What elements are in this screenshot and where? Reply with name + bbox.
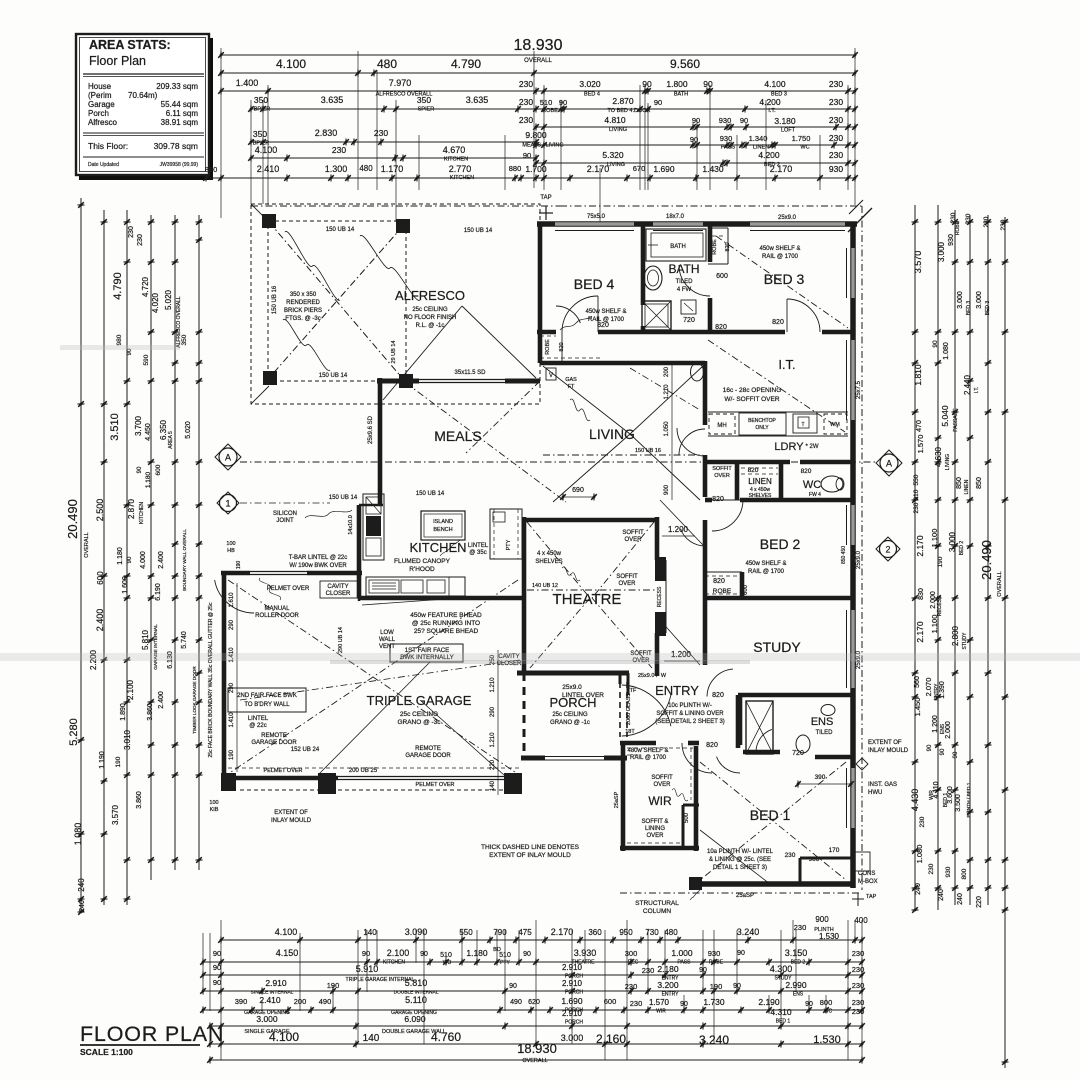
svg-text:OVERALL: OVERALL <box>524 58 552 64</box>
svg-text:GARAGE DOOR: GARAGE DOOR <box>251 740 297 746</box>
svg-text:INLAY MOULD: INLAY MOULD <box>271 818 312 824</box>
svg-text:LIVING: LIVING <box>609 127 627 133</box>
svg-text:600: 600 <box>155 464 162 475</box>
svg-text:25aSP: 25aSP <box>736 893 754 899</box>
svg-text:@ 22c: @ 22c <box>249 723 266 729</box>
svg-text:930: 930 <box>945 866 952 877</box>
svg-text:900: 900 <box>809 856 820 863</box>
svg-text:690: 690 <box>572 487 584 494</box>
island bench <box>421 511 465 540</box>
svg-text:4.670: 4.670 <box>443 145 466 155</box>
svg-text:190: 190 <box>236 561 242 570</box>
svg-text:150 UB 14: 150 UB 14 <box>326 227 355 233</box>
svg-text:290 UB 14: 290 UB 14 <box>338 627 344 653</box>
svg-text:STUDY: STUDY <box>753 639 801 655</box>
marker A left <box>215 444 241 470</box>
svg-text:240: 240 <box>915 883 922 895</box>
svg-text:600: 600 <box>716 273 728 280</box>
svg-text:190: 190 <box>937 556 944 567</box>
svg-text:PASSAGE: PASSAGE <box>953 408 959 432</box>
svg-text:9.800: 9.800 <box>525 130 547 140</box>
svg-text:R.L. @ -1c: R.L. @ -1c <box>416 323 445 329</box>
svg-text:800: 800 <box>820 998 833 1007</box>
svg-text:10c PLINTH W/-: 10c PLINTH W/- <box>668 703 712 709</box>
svg-text:Alfresco: Alfresco <box>88 118 117 127</box>
svg-text:WC: WC <box>803 479 821 491</box>
svg-text:600: 600 <box>604 997 617 1006</box>
svg-text:PLINTH / BED 1: PLINTH / BED 1 <box>966 782 972 817</box>
svg-text:90: 90 <box>932 340 939 348</box>
svg-text:1.180: 1.180 <box>145 471 152 488</box>
svg-text:2.100: 2.100 <box>387 948 410 958</box>
svg-text:3.860: 3.860 <box>136 791 143 809</box>
top dimension block <box>203 37 858 222</box>
svg-text:CLOSER: CLOSER <box>326 591 351 597</box>
svg-text:90: 90 <box>523 151 531 160</box>
svg-text:BED 2: BED 2 <box>791 960 806 966</box>
svg-text:230: 230 <box>137 234 144 246</box>
svg-text:230: 230 <box>965 213 972 224</box>
svg-text:EXTENT OF: EXTENT OF <box>868 740 902 746</box>
svg-text:LINING: LINING <box>645 826 665 832</box>
svg-text:150 UB 16: 150 UB 16 <box>635 448 661 454</box>
svg-text:BATH: BATH <box>670 244 686 250</box>
svg-text:3.240: 3.240 <box>699 1033 729 1047</box>
svg-text:GAS: GAS <box>565 377 577 383</box>
svg-text:SOFFIT: SOFFIT <box>616 574 638 580</box>
svg-text:800: 800 <box>961 868 968 879</box>
svg-text:3.150: 3.150 <box>785 948 808 958</box>
svg-text:BED 3: BED 3 <box>985 301 991 316</box>
svg-text:190: 190 <box>229 749 235 760</box>
svg-text:90: 90 <box>740 116 748 125</box>
svg-text:600: 600 <box>743 584 749 595</box>
svg-text:4.810: 4.810 <box>604 115 626 125</box>
svg-text:470: 470 <box>916 420 923 432</box>
svg-text:10a PLINTH W/- LINTEL: 10a PLINTH W/- LINTEL <box>707 849 774 855</box>
svg-text:TAP: TAP <box>540 195 551 201</box>
title <box>80 1022 224 1057</box>
svg-text:900: 900 <box>664 484 670 495</box>
svg-text:360: 360 <box>588 928 602 937</box>
ceiling diagonals <box>228 236 848 884</box>
svg-text:ROBE: ROBE <box>712 239 718 255</box>
svg-text:5.740: 5.740 <box>181 631 188 649</box>
svg-text:25x9.0: 25x9.0 <box>856 550 862 569</box>
svg-text:REMOTE: REMOTE <box>261 733 287 739</box>
svg-text:TO B'DRY WALL: TO B'DRY WALL <box>244 702 290 708</box>
svg-text:930: 930 <box>720 134 733 143</box>
svg-text:75x5.0: 75x5.0 <box>587 214 606 220</box>
marker 2 right <box>876 537 900 561</box>
svg-text:3.700: 3.700 <box>134 415 143 436</box>
svg-text:230: 230 <box>829 115 843 125</box>
svg-text:230: 230 <box>128 226 135 238</box>
svg-text:1.210: 1.210 <box>490 732 496 748</box>
svg-text:Porch: Porch <box>88 109 109 118</box>
svg-text:LINTEL: LINTEL <box>248 716 269 722</box>
svg-text:1.700: 1.700 <box>525 164 547 174</box>
svg-text:3.000: 3.000 <box>976 291 983 309</box>
svg-text:820: 820 <box>715 324 727 331</box>
svg-text:90: 90 <box>690 135 698 144</box>
svg-text:309.78 sqm: 309.78 sqm <box>154 141 198 151</box>
svg-text:3.090: 3.090 <box>405 927 428 937</box>
svg-text:850: 850 <box>976 477 983 489</box>
svg-text:90: 90 <box>420 951 428 958</box>
svg-text:850: 850 <box>956 477 963 489</box>
room labels <box>367 262 834 823</box>
wc toilet <box>821 476 844 492</box>
svg-text:House: House <box>88 82 112 91</box>
svg-text:BRICK PIERS: BRICK PIERS <box>284 308 322 314</box>
svg-text:2.170: 2.170 <box>551 927 574 937</box>
svg-text:COLUMN: COLUMN <box>643 908 671 915</box>
svg-text:BED 1: BED 1 <box>776 1019 791 1025</box>
svg-text:W/- SOFFIT OVER: W/- SOFFIT OVER <box>724 396 779 403</box>
svg-text:4.100: 4.100 <box>276 57 306 71</box>
svg-text:100: 100 <box>226 541 235 547</box>
svg-text:890: 890 <box>205 165 218 174</box>
svg-text:170: 170 <box>829 847 840 854</box>
svg-text:4.200: 4.200 <box>758 150 780 160</box>
svg-text:240: 240 <box>957 893 964 905</box>
scan smudge bands <box>0 653 1080 661</box>
svg-text:3.600: 3.600 <box>947 786 954 804</box>
svg-text:2.870: 2.870 <box>612 96 634 106</box>
svg-text:480w SHELF &: 480w SHELF & <box>627 748 668 754</box>
svg-text:LIVING: LIVING <box>607 162 625 168</box>
svg-text:2.770: 2.770 <box>449 164 472 174</box>
svg-text:SHELVES: SHELVES <box>535 559 562 565</box>
svg-text:730: 730 <box>645 928 659 937</box>
svg-text:LINEN: LINEN <box>964 479 970 494</box>
svg-text:450w SHELF &: 450w SHELF & <box>745 561 786 567</box>
svg-text:230: 230 <box>983 216 990 227</box>
svg-text:1.300: 1.300 <box>325 164 348 174</box>
svg-text:FT: FT <box>568 384 575 390</box>
svg-text:230: 230 <box>519 115 533 125</box>
svg-text:T: T <box>801 422 804 428</box>
svg-text:1.390: 1.390 <box>939 681 946 699</box>
svg-text:A: A <box>225 453 231 463</box>
svg-text:20.490: 20.490 <box>979 540 994 580</box>
svg-text:240: 240 <box>938 889 945 901</box>
svg-text:2.440: 2.440 <box>963 374 972 395</box>
svg-text:930: 930 <box>948 234 955 246</box>
svg-text:4 FW: 4 FW <box>677 287 692 293</box>
svg-text:Garage: Garage <box>88 100 115 109</box>
svg-text:230: 230 <box>852 949 865 958</box>
svg-text:ROBE: ROBE <box>713 588 732 595</box>
svg-text:2.400: 2.400 <box>158 691 165 709</box>
svg-text:2.170: 2.170 <box>915 621 925 643</box>
svg-text:1.100: 1.100 <box>930 615 939 634</box>
svg-text:INLAY MOULD: INLAY MOULD <box>868 748 909 754</box>
svg-text:100: 100 <box>209 800 218 806</box>
svg-text:BOUNDARY WALL OVERALL: BOUNDARY WALL OVERALL <box>182 529 187 591</box>
svg-text:25c FACE BRICK BOUNDARY WALL 3: 25c FACE BRICK BOUNDARY WALL 35c OVERALL… <box>208 602 214 757</box>
svg-text:LOW: LOW <box>380 630 394 636</box>
svg-text:3.000: 3.000 <box>937 241 946 262</box>
svg-text:TAP: TAP <box>866 894 877 900</box>
svg-text:4.110: 4.110 <box>933 781 940 798</box>
svg-text:KIB: KIB <box>210 807 219 813</box>
svg-text:25x9.0: 25x9.0 <box>562 684 582 691</box>
svg-text:THEATRE: THEATRE <box>553 591 622 608</box>
svg-text:4.720: 4.720 <box>141 276 150 297</box>
svg-text:230: 230 <box>625 982 638 991</box>
svg-text:4.100: 4.100 <box>275 927 298 937</box>
vanity basin nook <box>691 363 704 381</box>
svg-text:1.050: 1.050 <box>664 421 670 437</box>
svg-text:RENDERED: RENDERED <box>286 300 320 306</box>
svg-text:* 2W: * 2W <box>805 444 818 450</box>
svg-text:(Perim: (Perim <box>88 91 112 100</box>
svg-text:18x7.0: 18x7.0 <box>666 214 685 220</box>
svg-text:(SEE DETAIL 2 SHEET 3): (SEE DETAIL 2 SHEET 3) <box>655 719 725 725</box>
svg-text:1.530: 1.530 <box>819 932 840 941</box>
svg-text:820: 820 <box>712 496 724 503</box>
svg-text:820: 820 <box>597 322 609 329</box>
svg-text:TILED: TILED <box>675 279 693 285</box>
svg-text:4.000: 4.000 <box>140 551 147 569</box>
svg-text:5.280: 5.280 <box>68 718 80 746</box>
svg-text:1.340: 1.340 <box>749 134 768 143</box>
bath shower <box>642 300 696 330</box>
svg-text:5.110: 5.110 <box>405 995 427 1005</box>
svg-text:240: 240 <box>77 878 86 892</box>
svg-text:I.T.: I.T. <box>778 357 795 372</box>
svg-text:25c CEILING: 25c CEILING <box>412 307 448 313</box>
svg-text:4.300: 4.300 <box>770 964 793 974</box>
svg-text:2.910: 2.910 <box>562 979 583 988</box>
svg-text:BENCH: BENCH <box>433 527 452 533</box>
svg-text:290: 290 <box>229 619 235 630</box>
svg-text:TO BED 4.DOOR: TO BED 4.DOOR <box>608 108 651 114</box>
svg-text:& LINING @ 25c. (SEE: & LINING @ 25c. (SEE <box>709 857 771 863</box>
svg-text:350: 350 <box>253 129 267 139</box>
svg-text:3.000: 3.000 <box>561 1033 584 1043</box>
svg-text:230: 230 <box>829 97 843 107</box>
svg-text:CAVITY: CAVITY <box>327 584 348 590</box>
laundry bench row <box>709 413 847 435</box>
svg-text:3.635: 3.635 <box>466 95 489 105</box>
svg-text:6.350: 6.350 <box>159 419 168 440</box>
svg-text:SDR: SDR <box>737 720 743 732</box>
svg-text:This Floor:: This Floor: <box>88 141 128 151</box>
svg-text:230: 230 <box>852 998 865 1007</box>
svg-text:5.320: 5.320 <box>602 150 624 160</box>
svg-text:A: A <box>886 459 892 469</box>
svg-text:2.170: 2.170 <box>587 164 610 174</box>
svg-text:220: 220 <box>976 896 983 908</box>
svg-text:SPIER: SPIER <box>418 107 435 113</box>
svg-text:230: 230 <box>919 816 926 827</box>
svg-text:230: 230 <box>374 128 388 138</box>
svg-text:2.170: 2.170 <box>770 164 793 174</box>
bath basin <box>644 266 662 290</box>
svg-text:5.040: 5.040 <box>940 405 950 427</box>
svg-text:3.860: 3.860 <box>147 703 154 721</box>
svg-text:90: 90 <box>509 983 517 990</box>
svg-text:720: 720 <box>792 750 804 757</box>
svg-text:230: 230 <box>852 981 865 990</box>
svg-text:RECESS: RECESS <box>937 595 943 616</box>
svg-text:ENTRY: ENTRY <box>662 992 680 998</box>
svg-text:1.190: 1.190 <box>99 751 106 769</box>
svg-text:150 UB 14: 150 UB 14 <box>464 228 493 234</box>
ens basin <box>821 705 835 716</box>
svg-text:90: 90 <box>362 949 370 958</box>
svg-text:V: V <box>549 373 553 379</box>
svg-text:ROBE: ROBE <box>545 339 551 355</box>
svg-text:390: 390 <box>815 774 826 781</box>
linen shelves <box>741 468 778 499</box>
svg-text:190: 190 <box>327 981 340 990</box>
svg-text:NO FLOOR FINISH: NO FLOOR FINISH <box>404 315 457 321</box>
svg-text:3.020: 3.020 <box>579 79 601 89</box>
svg-text:90: 90 <box>680 1001 688 1008</box>
svg-text:820: 820 <box>772 319 784 326</box>
svg-text:JW39958 (99.99): JW39958 (99.99) <box>160 162 199 168</box>
svg-text:25? SQUARE BHEAD: 25? SQUARE BHEAD <box>414 628 479 635</box>
svg-text:2.500: 2.500 <box>95 499 105 522</box>
svg-text:REC: REC <box>628 960 639 966</box>
svg-text:190: 190 <box>115 756 122 767</box>
svg-text:140: 140 <box>363 928 377 937</box>
svg-text:290: 290 <box>229 682 235 693</box>
svg-text:4.450: 4.450 <box>145 423 152 441</box>
svg-text:3.570: 3.570 <box>111 804 120 825</box>
svg-text:230: 230 <box>852 965 865 974</box>
svg-text:152 UB 24: 152 UB 24 <box>291 747 320 753</box>
svg-text:ISLAND: ISLAND <box>433 519 453 525</box>
svg-text:1.080: 1.080 <box>915 845 924 864</box>
svg-text:25x9.6 SD: 25x9.6 SD <box>368 415 374 444</box>
svg-text:ROLLER DOOR: ROLLER DOOR <box>255 613 299 619</box>
svg-text:390: 390 <box>235 997 248 1006</box>
svg-text:3.010: 3.010 <box>123 729 132 750</box>
svg-text:230: 230 <box>829 133 843 143</box>
svg-text:2.910: 2.910 <box>562 963 583 972</box>
svg-text:230: 230 <box>630 999 643 1008</box>
svg-text:6.090: 6.090 <box>404 1014 426 1024</box>
svg-text:PELMET OVER: PELMET OVER <box>267 586 310 592</box>
svg-text:820: 820 <box>748 467 759 474</box>
svg-text:4 x 450w: 4 x 450w <box>537 551 562 557</box>
svg-text:OVER: OVER <box>646 833 664 839</box>
svg-text:MANUAL: MANUAL <box>264 606 290 612</box>
svg-text:550: 550 <box>913 474 920 485</box>
svg-text:400: 400 <box>854 916 868 925</box>
annotation texts <box>208 195 909 915</box>
svg-text:150 UB 14: 150 UB 14 <box>416 491 445 497</box>
svg-text:25c CEILING: 25c CEILING <box>552 712 588 718</box>
svg-text:450w FEATURE BHEAD: 450w FEATURE BHEAD <box>410 612 482 619</box>
svg-text:TIMBER LOOK GARAGE DOOR: TIMBER LOOK GARAGE DOOR <box>192 666 197 734</box>
svg-text:240: 240 <box>79 900 86 912</box>
svg-text:480: 480 <box>664 928 678 937</box>
svg-text:1.430: 1.430 <box>702 164 724 174</box>
svg-text:90: 90 <box>642 79 652 89</box>
svg-text:ENTRY: ENTRY <box>655 683 699 698</box>
svg-text:230: 230 <box>928 863 935 874</box>
svg-text:LIVING: LIVING <box>945 454 951 471</box>
svg-text:2.000: 2.000 <box>945 721 952 739</box>
svg-text:9.560: 9.560 <box>670 57 700 71</box>
svg-text:PELMET OVER: PELMET OVER <box>415 782 454 788</box>
svg-text:1.800: 1.800 <box>666 79 688 89</box>
svg-text:M-BOX: M-BOX <box>858 879 878 885</box>
door arcs <box>215 265 820 773</box>
svg-text:620: 620 <box>528 999 540 1006</box>
svg-text:KITCHEN: KITCHEN <box>450 175 474 181</box>
svg-text:1.730: 1.730 <box>703 997 725 1007</box>
svg-text:29 UB 14: 29 UB 14 <box>391 341 397 364</box>
svg-text:PELMET OVER: PELMET OVER <box>263 768 302 774</box>
svg-text:490: 490 <box>319 997 332 1006</box>
svg-text:7.970: 7.970 <box>389 78 412 88</box>
svg-text:450w SHELF &: 450w SHELF & <box>759 246 800 252</box>
svg-text:GARAGE DOOR: GARAGE DOOR <box>405 753 451 759</box>
svg-text:230: 230 <box>1000 219 1007 230</box>
svg-text:140: 140 <box>363 1033 380 1044</box>
svg-text:70.64m): 70.64m) <box>128 91 158 100</box>
svg-text:90: 90 <box>953 751 959 758</box>
svg-text:4.100: 4.100 <box>764 79 786 89</box>
svg-text:KITCHEN: KITCHEN <box>409 540 466 555</box>
svg-text:930: 930 <box>829 164 843 174</box>
svg-text:BPIER: BPIER <box>254 107 271 113</box>
svg-text:OVER: OVER <box>624 537 642 543</box>
svg-text:35x11.5 SD: 35x11.5 SD <box>455 370 487 376</box>
svg-text:560: 560 <box>914 676 921 688</box>
svg-text:4.430: 4.430 <box>910 789 920 812</box>
svg-text:3.000: 3.000 <box>948 531 957 552</box>
svg-text:PASS: PASS <box>721 145 736 151</box>
left dimension block <box>65 198 203 915</box>
svg-text:490: 490 <box>510 999 522 1006</box>
svg-text:2.910: 2.910 <box>562 1009 583 1018</box>
svg-text:RECESS: RECESS <box>657 586 663 607</box>
svg-text:230: 230 <box>829 79 843 89</box>
svg-text:1.570: 1.570 <box>916 435 925 454</box>
svg-text:PASS: PASS <box>678 960 692 966</box>
svg-text:820: 820 <box>706 742 718 749</box>
svg-text:90: 90 <box>654 98 662 107</box>
svg-text:200 UB 25: 200 UB 25 <box>349 768 378 774</box>
svg-text:TRIPLE GARAGE: TRIPLE GARAGE <box>367 693 472 708</box>
svg-text:FLUMED CANOPY: FLUMED CANOPY <box>394 558 451 565</box>
svg-text:850 450: 850 450 <box>841 546 847 564</box>
svg-text:3.570: 3.570 <box>913 251 923 274</box>
svg-text:1.400: 1.400 <box>236 78 259 88</box>
svg-text:510: 510 <box>540 98 553 107</box>
svg-text:SOFFIT & LINING OVER: SOFFIT & LINING OVER <box>656 711 724 717</box>
svg-text:90: 90 <box>699 967 707 974</box>
svg-text:DETAIL 1 SHEET 3): DETAIL 1 SHEET 3) <box>713 865 767 871</box>
svg-text:1.180: 1.180 <box>466 948 488 958</box>
svg-text:4.790: 4.790 <box>451 57 481 71</box>
svg-text:1.080: 1.080 <box>73 823 83 846</box>
svg-text:EXTENT OF INLAY MOULD: EXTENT OF INLAY MOULD <box>489 852 571 859</box>
svg-text:550: 550 <box>459 928 473 937</box>
svg-text:OVERALL: OVERALL <box>997 571 1003 596</box>
svg-text:EXTENT OF: EXTENT OF <box>274 810 308 816</box>
svg-text:2.400: 2.400 <box>95 609 105 632</box>
svg-text:5.810: 5.810 <box>141 629 150 650</box>
